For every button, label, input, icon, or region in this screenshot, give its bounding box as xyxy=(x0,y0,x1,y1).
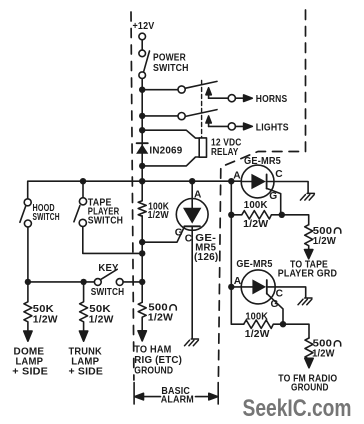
svg-text:SWITCH: SWITCH xyxy=(33,212,60,223)
svg-text:A: A xyxy=(233,171,241,182)
wire SCR2 cathode to chassis ground xyxy=(267,287,306,298)
svg-text:PLAYER GRD: PLAYER GRD xyxy=(278,268,337,279)
svg-text:SeekIC.com: SeekIC.com xyxy=(243,395,352,422)
SCR triangle xyxy=(251,174,266,189)
svg-text:TO HAM: TO HAM xyxy=(134,344,171,355)
svg-text:SWITCH: SWITCH xyxy=(91,287,125,298)
SCR (126) cathode bar xyxy=(184,225,200,227)
resistor 100K 1/2W (SCR2 gate) xyxy=(244,320,283,328)
svg-text:GE-MR5: GE-MR5 xyxy=(236,259,272,270)
wire hood switch to key line xyxy=(27,227,29,282)
wire gate SCR2 xyxy=(267,294,283,325)
svg-text:G: G xyxy=(269,191,277,202)
svg-text:100K: 100K xyxy=(244,200,268,211)
relay contact K1b (lights) xyxy=(178,113,185,120)
key switch xyxy=(94,279,101,286)
relay contact K1a (horns) xyxy=(178,86,185,93)
wire cathode SCR (126) to ground xyxy=(191,226,193,338)
wire SCR1 gate node to 500 ohm xyxy=(282,215,309,225)
svg-text:KEY: KEY xyxy=(98,263,118,274)
resistor 100K 1/2W (rail) xyxy=(138,201,146,217)
wire bus to tape player switch xyxy=(82,181,84,198)
svg-text:G: G xyxy=(175,227,183,238)
SCR cathode bar xyxy=(266,174,268,188)
svg-text:1/2W: 1/2W xyxy=(243,219,268,230)
wire bus to SCR2 anode xyxy=(231,181,243,324)
SCR (126) triangle xyxy=(183,208,201,224)
SCR2 triangle xyxy=(252,279,266,294)
svg-text:C: C xyxy=(185,233,193,244)
arrow to ham rig ground xyxy=(138,331,146,341)
wire SCR2 gate node to 500 ohm xyxy=(283,324,309,338)
arrow to dome lamp xyxy=(24,331,32,341)
wire anode SCR (126) xyxy=(191,181,193,208)
svg-text:GE-MR5: GE-MR5 xyxy=(244,156,281,167)
wire +12V to power switch xyxy=(141,40,143,50)
svg-text:1/2W: 1/2W xyxy=(33,314,58,325)
svg-text:100K: 100K xyxy=(245,311,268,322)
svg-text:A: A xyxy=(194,189,202,200)
svg-text:A: A xyxy=(234,276,242,287)
wire lights output xyxy=(209,125,229,127)
svg-text:C: C xyxy=(276,288,284,299)
wire main horizontal bus xyxy=(28,181,252,199)
svg-text:+12V: +12V xyxy=(133,21,155,32)
diode IN2069 cathode bar xyxy=(137,142,148,144)
wire relay coil top xyxy=(142,130,199,138)
power switch S1 xyxy=(139,50,146,57)
wire main +12V rail vertical xyxy=(141,79,143,201)
resistor 50K 1/2W (dome lamp) xyxy=(24,282,32,331)
arrow to trunk lamp xyxy=(79,331,87,341)
resistor 500 ohm 1/2W (tape player grd) xyxy=(305,225,313,252)
svg-text:TRUNK: TRUNK xyxy=(69,346,103,357)
svg-text:IN2069: IN2069 xyxy=(149,145,182,156)
basic alarm arrow line xyxy=(143,396,161,398)
SCR GE-MR5 (tape/FM hold) body xyxy=(241,270,275,304)
SCR GE-MR5 (126) body xyxy=(176,199,208,231)
relay armature arrow (lights) xyxy=(208,123,210,127)
svg-text:+ SIDE: + SIDE xyxy=(12,366,48,377)
wire gate SCR1 xyxy=(267,188,281,214)
wire cathode to chassis ground xyxy=(267,182,309,193)
wire tape player switch to rail xyxy=(83,227,142,254)
dashed boundary line (right, down then left to GE-MR5 then down) xyxy=(218,10,305,380)
wire to lights relay contact xyxy=(142,115,178,117)
SCR2 cathode bar xyxy=(266,280,268,294)
relay armature arrow (horns) xyxy=(208,94,210,98)
svg-text:GROUND: GROUND xyxy=(291,382,329,393)
arrow to FM radio ground xyxy=(305,358,313,368)
resistor 500 ohm 1/2W (FM radio ground) xyxy=(305,338,313,359)
wire horns output xyxy=(209,97,229,99)
basic alarm span right bar xyxy=(217,383,219,405)
svg-text:DOME: DOME xyxy=(14,346,45,357)
basic alarm span left bar xyxy=(133,383,135,405)
resistor 500 ohm 1/2W (ham rig ground) xyxy=(138,302,146,331)
svg-text:1/2W: 1/2W xyxy=(313,236,336,247)
chassis ground (SCR 126 cathode) xyxy=(185,339,199,346)
wire key switch to rail xyxy=(123,281,142,283)
svg-text:1/2W: 1/2W xyxy=(245,329,270,340)
wire gate SCR (126) xyxy=(142,227,184,243)
svg-text:GROUND: GROUND xyxy=(134,366,173,377)
relay mechanical linkage (dashed) xyxy=(201,81,203,138)
svg-text:1/2W: 1/2W xyxy=(148,210,169,221)
svg-text:SWITCH: SWITCH xyxy=(153,63,189,74)
svg-text:50K: 50K xyxy=(89,304,111,315)
hood switch xyxy=(24,199,31,206)
wire to horns relay contact xyxy=(142,89,178,91)
resistor 100K 1/2W (SCR1 gate) xyxy=(231,211,281,219)
tape player switch xyxy=(79,198,86,205)
svg-text:(126): (126) xyxy=(194,252,219,263)
arrow to tape player ground xyxy=(305,250,313,259)
svg-text:POWER: POWER xyxy=(153,52,186,63)
svg-text:1/2W: 1/2W xyxy=(312,348,335,359)
resistor 50K 1/2W (trunk lamp) xyxy=(80,282,88,331)
SCR GE-MR5 (horns/lights hold) body xyxy=(241,165,274,198)
svg-text:RIG (ETC): RIG (ETC) xyxy=(134,355,182,366)
svg-text:SWITCH: SWITCH xyxy=(88,215,123,226)
dashed boundary line (left, basic alarm region) xyxy=(131,12,134,380)
relay K1 coil (12 VDC RELAY) xyxy=(199,138,206,157)
chassis ground (SCR1 cathode) xyxy=(300,193,314,200)
diode IN2069 xyxy=(136,144,148,154)
svg-text:ALARM: ALARM xyxy=(161,394,194,405)
svg-text:LIGHTS: LIGHTS xyxy=(256,122,289,133)
svg-text:1/2W: 1/2W xyxy=(148,312,174,323)
svg-text:C: C xyxy=(275,169,283,180)
wire key switch line xyxy=(28,281,95,283)
wire relay coil bottom xyxy=(142,157,199,166)
svg-text:50K: 50K xyxy=(33,304,55,315)
node +12V terminal xyxy=(139,33,146,40)
chassis ground (SCR2 cathode) xyxy=(298,298,312,305)
svg-text:HORNS: HORNS xyxy=(256,94,287,105)
svg-text:1/2W: 1/2W xyxy=(89,314,114,325)
junction dots xyxy=(139,87,145,93)
svg-text:+ SIDE: + SIDE xyxy=(69,366,104,377)
svg-text:G: G xyxy=(271,299,279,310)
svg-text:RELAY: RELAY xyxy=(211,147,239,158)
